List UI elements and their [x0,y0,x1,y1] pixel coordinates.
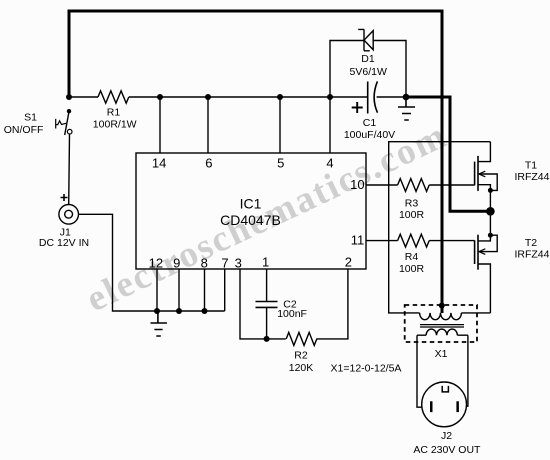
svg-text:J2: J2 [441,430,452,442]
resistor R4 [398,234,430,247]
wire: R4 to T2 gate [429,240,474,242]
wire: T1 drain rail to transformer left [389,142,491,313]
svg-text:ON/OFF: ON/OFF [4,124,44,136]
wire: J1 to bottom common bus [79,214,225,311]
svg-text:IC1: IC1 [240,196,262,212]
wire: +12V thick rail top and right down to transformer center tap [69,11,442,313]
svg-text:1: 1 [262,255,269,270]
wire: pin 1 drop to C2 [266,269,268,301]
svg-text:CD4047B: CD4047B [220,212,281,228]
svg-text:100R/1W: 100R/1W [93,118,137,130]
wire: pin 10 to R3 [366,184,398,186]
node: pin12 bus junction [154,308,160,314]
wire: pin 7 drop [224,269,226,311]
node: pin6 rail junction [205,94,211,100]
svg-text:R1: R1 [107,107,121,119]
wire: C1 right plate to common node [377,96,406,98]
resistor R3 [398,179,430,192]
svg-text:5: 5 [277,155,284,170]
svg-text:C1: C1 [363,117,377,129]
svg-text:IRFZ44: IRFZ44 [514,248,549,260]
svg-text:AC 230V OUT: AC 230V OUT [413,444,481,456]
svg-text:4: 4 [326,155,333,170]
IC U1 CD4047B box [136,153,366,269]
wire: pin 4 drop [329,97,331,153]
wire: R2 to pin 2 drop [316,269,348,339]
wire: R3 to T1 gate [429,184,474,186]
wire: pin 6 drop [207,97,209,153]
wire: pin 9 drop [178,269,180,311]
wire: node to R2 [267,338,286,340]
zener diode D1 [350,29,387,78]
svg-text:120K: 120K [289,362,314,374]
svg-text:R2: R2 [294,349,308,361]
ground (right, at C1/D1 common node) [398,97,415,120]
svg-text:100nF: 100nF [277,308,307,320]
node: C1/D1/ground common junction [403,94,410,101]
node: pin8 bus junction [202,308,208,314]
svg-text:3: 3 [235,255,242,270]
svg-text:100R: 100R [399,263,425,275]
svg-text:2: 2 [345,255,352,270]
connector J1 [39,194,89,249]
svg-text:D1: D1 [361,53,375,65]
resistor R2 [286,332,317,345]
svg-text:7: 7 [221,255,228,270]
transformer X1 [405,305,477,360]
node: pin9 bus junction [176,308,182,314]
capacitor C1 [344,81,395,140]
wire: secondary right lead to J2 [466,335,468,406]
svg-text:T1: T1 [525,159,537,171]
svg-text:100uF/40V: 100uF/40V [344,129,395,141]
svg-text:11: 11 [351,233,365,248]
capacitor C2 [256,299,307,321]
node: rail/switch junction [66,94,72,100]
node: pin5 rail junction [277,94,283,100]
node: pin4/D1 rail junction [327,94,333,100]
ground (left, below bottom bus) [151,311,167,336]
wire: pin 12 drop [156,269,158,311]
connector J2 AC outlet [413,382,481,456]
svg-text:IRFZ44: IRFZ44 [514,171,549,183]
transistor T1 IRFZ44 [475,142,550,212]
wire: main rail to C1 [129,96,368,98]
wire: T2 drain to transformer right [461,312,490,314]
svg-text:12: 12 [149,255,163,270]
svg-text:8: 8 [201,255,208,270]
svg-text:5V6/1W: 5V6/1W [350,66,387,78]
svg-text:X1: X1 [435,348,448,360]
svg-text:X1=12-0-12/5A: X1=12-0-12/5A [331,363,402,375]
wire: thick common bus from C1/D1 node to MOSFET sources [406,97,490,211]
wire: pin 3 drop and run to node [240,269,267,339]
node: pin14 rail junction [157,94,163,100]
svg-text:R3: R3 [405,198,419,210]
node: MOSFET sources common junction [486,207,495,216]
node: C2/R2/pin3 junction [264,336,270,342]
svg-text:14: 14 [152,155,166,170]
wire: main rail left segment [69,96,98,98]
svg-text:9: 9 [173,255,180,270]
svg-text:R4: R4 [405,251,419,263]
svg-text:100R: 100R [399,209,425,221]
resistor R1 [98,91,129,103]
wire: C2 to node [266,308,268,339]
node: center tap on transformer box [439,303,445,309]
switch S1 [4,109,72,136]
wire: pin 11 to R4 [366,240,398,242]
wire: D1 branch [330,41,406,98]
wire: pin 5 drop [279,97,281,153]
svg-text:S1: S1 [24,111,37,123]
wire: switch to J1 [68,134,71,204]
svg-text:T2: T2 [525,237,537,249]
wire: secondary left lead to J2 [417,335,422,407]
svg-text:DC 12V IN: DC 12V IN [39,237,89,249]
svg-text:10: 10 [350,177,364,192]
wire: pin 14 drop [159,97,161,153]
svg-text:6: 6 [205,155,212,170]
wire: pin 8 drop [204,269,206,311]
transistor T2 IRFZ44 [475,211,550,313]
